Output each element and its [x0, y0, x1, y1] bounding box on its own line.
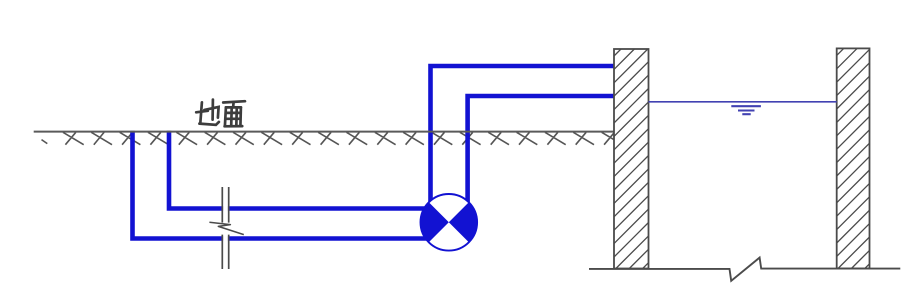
pipe suction 1 (left vertical + lower horizontal to pump): [130, 131, 449, 239]
pipe discharge 2 (riser to second run into wall): [465, 96, 614, 223]
ground line: [34, 131, 614, 133]
reservoir wall right: [837, 48, 870, 268]
label 地面: [196, 100, 245, 127]
water level line: [649, 101, 837, 103]
reservoir wall left: [614, 49, 649, 269]
pipe discharge 1 (riser to top run into wall): [428, 66, 614, 223]
pipe break zigzag: [209, 222, 243, 234]
pipe break mask: [223, 183, 228, 271]
pump P1: [421, 194, 478, 251]
ground hatch: [42, 132, 623, 144]
pipe break line right: [228, 187, 230, 269]
water level symbol: [731, 106, 761, 114]
pipe break line left: [221, 187, 223, 269]
tank bottom line with break: [589, 258, 900, 281]
pipe suction 2 (second vertical + upper horizontal to pump): [167, 131, 449, 209]
